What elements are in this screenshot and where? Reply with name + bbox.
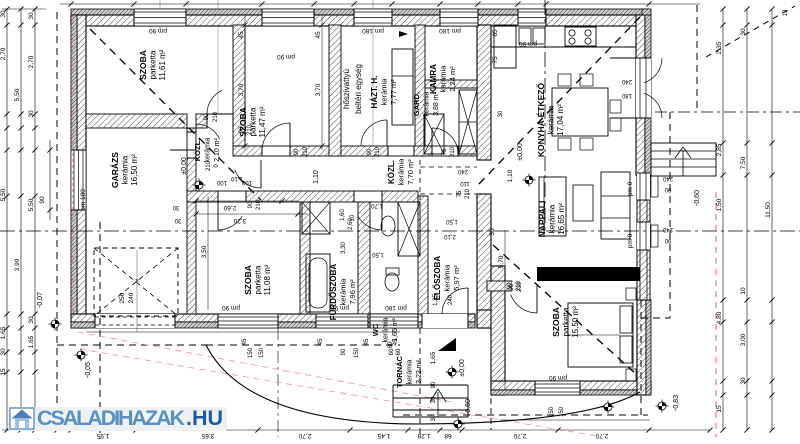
svg-text:CSALADIHAZAK: CSALADIHAZAK — [37, 406, 185, 430]
svg-text:90: 90 — [341, 348, 347, 355]
svg-text:pm 90: pm 90 — [277, 53, 295, 60]
svg-text:7,77 m²: 7,77 m² — [389, 79, 398, 105]
svg-text:45: 45 — [242, 338, 248, 345]
svg-text:1,70: 1,70 — [371, 202, 383, 208]
svg-text:45: 45 — [364, 338, 370, 345]
svg-text:30: 30 — [498, 110, 504, 117]
svg-text:65: 65 — [492, 29, 499, 37]
svg-text:210: 210 — [375, 146, 381, 157]
svg-text:2,70: 2,70 — [0, 47, 7, 60]
svg-text:GARÁZS: GARÁZS — [110, 152, 120, 188]
svg-text:2,10 m²: 2,10 m² — [214, 137, 221, 161]
svg-text:3,50: 3,50 — [201, 245, 208, 258]
svg-text:SZOBA: SZOBA — [551, 307, 561, 337]
svg-text:15: 15 — [0, 368, 7, 376]
svg-text:68: 68 — [444, 432, 452, 439]
svg-text:1,10: 1,10 — [507, 169, 514, 182]
svg-text:kerámia: kerámia — [121, 155, 130, 184]
svg-text:-0,07: -0,07 — [37, 292, 44, 308]
svg-text:11,08 m²: 11,08 m² — [263, 264, 272, 295]
svg-text:1,28: 1,28 — [417, 432, 430, 439]
svg-text:240: 240 — [621, 78, 632, 84]
svg-text:ELŐSZOBA: ELŐSZOBA — [433, 256, 442, 301]
svg-text:240: 240 — [457, 168, 468, 174]
svg-text:kerámia: kerámia — [439, 65, 448, 93]
svg-text:pm 90: pm 90 — [149, 27, 167, 34]
svg-text:1,50: 1,50 — [372, 251, 384, 257]
svg-text:10: 10 — [740, 287, 747, 295]
svg-text:kerámia: kerámia — [205, 137, 212, 162]
svg-text:3,20: 3,20 — [233, 217, 246, 224]
svg-text:5,70: 5,70 — [498, 255, 505, 268]
svg-text:240: 240 — [662, 175, 673, 181]
svg-text:90: 90 — [664, 237, 671, 243]
svg-text:11,47 m²: 11,47 m² — [258, 106, 267, 137]
svg-text:210: 210 — [303, 146, 309, 157]
svg-text:HÁZT. H.: HÁZT. H. — [370, 76, 379, 109]
svg-text:pm 180: pm 180 — [80, 189, 87, 211]
svg-text:KÖZL.: KÖZL. — [193, 139, 202, 162]
svg-text:5,97 m²: 5,97 m² — [452, 265, 461, 291]
svg-text:90: 90 — [248, 201, 254, 208]
svg-text:kerámia: kerámia — [397, 158, 406, 186]
svg-text:75: 75 — [457, 190, 463, 197]
svg-text:beltéri egység: beltéri egység — [354, 64, 363, 114]
svg-text:1,95: 1,95 — [96, 432, 109, 439]
svg-text:75: 75 — [492, 56, 499, 64]
svg-text:240: 240 — [662, 226, 673, 232]
svg-text:30: 30 — [0, 348, 7, 356]
svg-text:75: 75 — [442, 148, 448, 155]
svg-text:3,70: 3,70 — [238, 83, 245, 96]
svg-text:kerámia: kerámia — [443, 264, 452, 292]
svg-text:×: × — [135, 278, 139, 285]
svg-text:3,70: 3,70 — [315, 83, 322, 96]
svg-text:kerámia: kerámia — [548, 204, 557, 233]
svg-text:60: 60 — [388, 341, 394, 348]
svg-text:kerámia: kerámia — [424, 91, 431, 116]
svg-text:pm 90: pm 90 — [519, 40, 537, 47]
svg-text:30: 30 — [740, 28, 747, 36]
svg-text:±0,00: ±0,00 — [459, 359, 466, 377]
svg-text:KÖZL.: KÖZL. — [387, 160, 396, 184]
svg-text:-0,60: -0,60 — [694, 190, 701, 206]
svg-text:90: 90 — [39, 196, 46, 204]
svg-text:90: 90 — [204, 113, 210, 120]
svg-text:3,88 m²: 3,88 m² — [433, 91, 440, 115]
svg-text:3,22 m²: 3,22 m² — [416, 359, 423, 383]
svg-text:kerámia: kerámia — [383, 317, 390, 342]
svg-text:240: 240 — [128, 292, 135, 303]
svg-text:2,24 m²: 2,24 m² — [448, 66, 457, 92]
svg-text:TORNÁC: TORNÁC — [395, 355, 404, 388]
svg-text:-0,60: -0,60 — [465, 399, 472, 415]
svg-text:parketta: parketta — [149, 50, 158, 79]
svg-text:5,50: 5,50 — [0, 188, 7, 201]
svg-text:210: 210 — [450, 146, 456, 157]
svg-text:45: 45 — [315, 31, 322, 39]
svg-text:2,70: 2,70 — [595, 432, 608, 439]
svg-text:1,65: 1,65 — [28, 335, 35, 348]
svg-text:1,60: 1,60 — [340, 209, 346, 221]
svg-text:150: 150 — [354, 347, 360, 358]
svg-text:30: 30 — [28, 316, 35, 324]
svg-text:1,50: 1,50 — [716, 198, 723, 211]
svg-text:SZOBA: SZOBA — [138, 50, 148, 80]
svg-text:11,50: 11,50 — [765, 202, 772, 218]
svg-text:90: 90 — [294, 148, 300, 155]
svg-text:250: 250 — [119, 292, 126, 303]
svg-text:3,65: 3,65 — [201, 432, 214, 439]
svg-text:kerámia: kerámia — [339, 278, 348, 306]
svg-text:11,61 m²: 11,61 m² — [158, 49, 167, 80]
svg-text:90: 90 — [664, 186, 671, 192]
svg-text:210: 210 — [206, 160, 212, 171]
svg-text:5,50: 5,50 — [14, 88, 21, 101]
svg-text:240: 240 — [448, 294, 454, 305]
svg-text:30: 30 — [28, 110, 35, 118]
svg-text:7,96 m²: 7,96 m² — [348, 279, 357, 305]
svg-text:kerámia: kerámia — [547, 105, 556, 134]
svg-text:2,10: 2,10 — [444, 233, 456, 239]
svg-text:90: 90 — [367, 148, 373, 155]
svg-text:2,70: 2,70 — [513, 432, 526, 439]
svg-text:110: 110 — [460, 180, 470, 186]
svg-text:150: 150 — [559, 406, 565, 417]
svg-text:210: 210 — [213, 111, 219, 122]
svg-text:210: 210 — [516, 280, 522, 291]
svg-text:30: 30 — [174, 217, 181, 223]
svg-text:.HU: .HU — [186, 406, 223, 430]
svg-text:1,65: 1,65 — [0, 326, 7, 339]
svg-text:210: 210 — [247, 124, 253, 135]
svg-text:GARD.: GARD. — [412, 92, 421, 116]
svg-text:7,70 m²: 7,70 m² — [406, 159, 415, 185]
svg-text:45: 45 — [318, 338, 324, 345]
svg-text:15: 15 — [716, 405, 723, 413]
svg-text:1,10: 1,10 — [231, 175, 243, 181]
svg-text:1,65: 1,65 — [430, 351, 437, 364]
svg-text:±0,00: ±0,00 — [181, 157, 188, 175]
svg-text:hőszivattyú: hőszivattyú — [342, 69, 351, 109]
svg-text:150: 150 — [549, 406, 555, 417]
svg-text:±0,00: ±0,00 — [517, 143, 524, 161]
svg-text:30: 30 — [740, 377, 747, 385]
svg-text:100: 100 — [216, 179, 227, 185]
svg-text:30: 30 — [431, 414, 437, 421]
svg-text:4,80: 4,80 — [716, 311, 723, 324]
svg-text:3,30: 3,30 — [341, 242, 347, 254]
svg-text:KONYHA-ÉTKEZŐ: KONYHA-ÉTKEZŐ — [535, 83, 546, 158]
svg-text:1,65 m²: 1,65 m² — [392, 317, 399, 341]
svg-text:150: 150 — [248, 347, 254, 358]
svg-text:17,04 m²: 17,04 m² — [556, 104, 565, 136]
svg-text:19: 19 — [783, 9, 789, 16]
svg-text:150: 150 — [259, 347, 265, 358]
svg-text:pm 90: pm 90 — [549, 374, 567, 381]
svg-text:parketta: parketta — [562, 307, 571, 336]
svg-text:16,65 m²: 16,65 m² — [557, 203, 566, 235]
svg-text:2,85: 2,85 — [716, 143, 723, 156]
svg-text:30: 30 — [28, 12, 35, 20]
svg-text:100: 100 — [241, 179, 252, 185]
svg-text:210: 210 — [465, 188, 471, 199]
svg-text:3,00: 3,00 — [740, 333, 747, 346]
svg-text:WC: WC — [371, 323, 380, 336]
svg-text:60: 60 — [396, 348, 402, 355]
svg-text:parketta: parketta — [254, 265, 263, 294]
svg-text:pm 90: pm 90 — [331, 304, 349, 311]
svg-text:16,50 m²: 16,50 m² — [130, 154, 139, 186]
svg-text:1,10: 1,10 — [313, 170, 320, 184]
svg-text:90: 90 — [431, 381, 437, 388]
svg-text:-0,83: -0,83 — [673, 395, 680, 411]
svg-text:90: 90 — [507, 282, 513, 289]
svg-text:pm 180: pm 180 — [385, 304, 407, 311]
svg-text:KAMRA: KAMRA — [429, 64, 438, 94]
svg-text:3,90: 3,90 — [14, 258, 21, 271]
svg-text:180: 180 — [621, 92, 632, 98]
svg-text:pm 90: pm 90 — [222, 304, 240, 311]
svg-text:45: 45 — [238, 31, 245, 39]
svg-text:pm 0: pm 0 — [627, 181, 634, 196]
svg-text:7,50: 7,50 — [740, 156, 747, 169]
svg-text:15,50 m²: 15,50 m² — [571, 306, 580, 338]
svg-text:30: 30 — [172, 204, 179, 210]
svg-text:-0,05: -0,05 — [85, 362, 92, 378]
svg-text:210: 210 — [256, 199, 262, 210]
svg-text:2,70: 2,70 — [298, 432, 311, 439]
svg-text:1,45: 1,45 — [377, 432, 390, 439]
svg-text:2,60: 2,60 — [223, 204, 236, 211]
svg-text:2,60: 2,60 — [348, 218, 354, 230]
svg-text:NAPPALI: NAPPALI — [537, 201, 547, 238]
svg-text:pm 0: pm 0 — [627, 233, 634, 248]
svg-text:SZOBA: SZOBA — [243, 265, 253, 295]
svg-text:pm 180: pm 180 — [362, 27, 384, 34]
svg-text:pm 180: pm 180 — [439, 27, 461, 34]
svg-text:kerámia: kerámia — [407, 359, 414, 384]
svg-text:kerámia: kerámia — [380, 78, 389, 106]
svg-text:30: 30 — [431, 396, 437, 403]
svg-text:1,50: 1,50 — [446, 218, 458, 224]
svg-text:1,35: 1,35 — [433, 294, 439, 306]
svg-text:30: 30 — [0, 10, 7, 18]
svg-text:30: 30 — [489, 228, 496, 236]
svg-text:90: 90 — [239, 126, 245, 133]
svg-text:2,70: 2,70 — [28, 55, 35, 68]
svg-text:2,35: 2,35 — [716, 41, 723, 54]
svg-text:5,50: 5,50 — [28, 198, 35, 211]
